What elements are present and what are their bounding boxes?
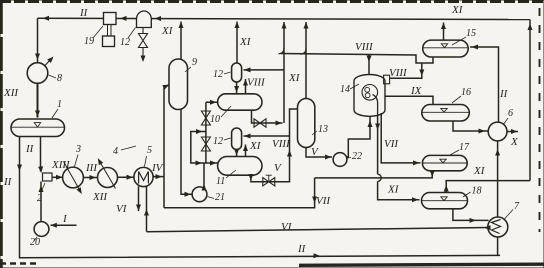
svg-text:20: 20 — [30, 237, 40, 248]
pump 22 — [333, 153, 347, 167]
svg-text:XI: XI — [451, 4, 464, 16]
wire 9 bottoms to pump 21 — [181, 110, 192, 195]
svg-text:12: 12 — [213, 69, 223, 80]
arrow into 22 — [325, 155, 332, 160]
filter 19 lower box — [103, 36, 115, 47]
wire riser to 9 — [164, 85, 169, 208]
arrow down II left — [17, 165, 22, 172]
page edge artifact bottom left — [0, 262, 40, 264]
arrow up riser A — [282, 22, 287, 29]
arrow into doser 2 — [38, 166, 43, 173]
arrow into 15 — [472, 45, 479, 50]
arrow VI down — [136, 205, 141, 212]
arrow into 12 dome — [155, 16, 162, 21]
wire VIII drop to reactor 14 top — [368, 55, 370, 76]
page edge artifact top — [0, 0, 544, 3]
arrow into 9 — [162, 85, 169, 90]
wire 10 bottoms — [252, 110, 283, 123]
svg-text:VIII: VIII — [389, 67, 408, 79]
svg-text:XI: XI — [161, 25, 174, 37]
drum 17 level line — [423, 162, 467, 164]
exchanger 7 — [488, 217, 508, 237]
wire 21 discharge — [203, 163, 205, 188]
arrow up into 2 — [39, 186, 44, 193]
arrow down from 14 — [375, 124, 380, 131]
svg-text:II: II — [3, 176, 13, 188]
arrow VII down — [312, 197, 317, 204]
wire 12l bottoms into 11 — [236, 150, 238, 157]
wire bypass loop — [191, 132, 206, 164]
tank 1 level mark — [34, 123, 40, 127]
valve under dome 12 — [142, 27, 144, 34]
svg-text:8: 8 — [57, 73, 62, 84]
svg-text:XI: XI — [239, 36, 252, 48]
svg-text:9: 9 — [192, 57, 197, 68]
drum 11 — [218, 157, 262, 176]
svg-text:II: II — [499, 88, 509, 100]
arrow into 19 — [120, 16, 127, 21]
vent arrow on 8 — [45, 58, 53, 67]
heater 5 — [134, 167, 153, 186]
svg-text:XI: XI — [288, 72, 301, 84]
column 13 — [298, 99, 315, 148]
valve V with stem — [263, 178, 275, 186]
wire VI out of 5 — [138, 186, 140, 211]
page edge artifact left — [0, 0, 3, 268]
arrow into 12l — [244, 134, 251, 139]
reactor 14 inner detail — [365, 87, 370, 92]
mixer 4 — [98, 168, 118, 188]
exchanger 7 zigzag — [492, 220, 501, 234]
pump 21 — [192, 187, 207, 202]
wire riser A x284 — [283, 22, 285, 123]
wire II left downcomer — [20, 137, 501, 258]
mixer 3 — [63, 167, 84, 188]
wire feed to 12l — [244, 135, 290, 137]
svg-text:4: 4 — [113, 146, 118, 157]
arrow bypass lower — [196, 161, 203, 166]
arrow into 17 — [413, 160, 420, 165]
svg-text:VII: VII — [384, 138, 399, 150]
drum 18 level line — [422, 200, 467, 202]
wire XI vapor from 11 — [245, 145, 247, 157]
svg-text:19: 19 — [84, 36, 94, 47]
wire into 11 — [206, 162, 218, 164]
reactor 14 side tag — [384, 75, 390, 84]
wire VIII vapor from 10 — [245, 79, 247, 94]
filter 19 stem — [107, 25, 109, 37]
wire 14 to 17 (VII) — [381, 113, 420, 163]
wire header to separator 8 — [37, 18, 39, 63]
column 9 — [169, 59, 188, 110]
svg-text:5: 5 — [147, 145, 152, 156]
mixer 3 shaft arrow — [64, 162, 82, 193]
wire 7 bottom to II line — [497, 237, 499, 255]
wire tank 1 to doser 2 — [40, 137, 42, 172]
arrow IV — [156, 174, 163, 179]
arrow up riser 9 — [179, 22, 184, 29]
page edge artifact right — [539, 8, 541, 232]
arrow into 11 — [210, 161, 217, 166]
svg-text:12: 12 — [213, 136, 223, 147]
wire riser from sep 12u — [236, 22, 238, 64]
wire IX line — [385, 96, 433, 104]
wire 12u bottoms into 10 — [236, 82, 238, 94]
arrow VIII up — [243, 79, 248, 86]
separator 12l — [232, 128, 242, 150]
arrow right II bottom — [313, 253, 320, 258]
drum 15 — [423, 40, 469, 57]
wire stream I inlet — [51, 224, 77, 226]
svg-text:VI: VI — [116, 203, 128, 215]
arrow up 21 discharge — [202, 184, 207, 191]
compressor 6 — [488, 122, 507, 141]
arrow down into 8 — [35, 54, 40, 61]
wire 6riser to 7 top — [497, 181, 499, 217]
arrow into 18 — [412, 197, 419, 202]
wire riser from column 13 — [305, 22, 307, 99]
svg-text:II: II — [297, 243, 307, 255]
svg-text:XII: XII — [3, 87, 19, 99]
svg-text:III: III — [85, 162, 98, 174]
svg-text:22: 22 — [352, 151, 362, 162]
arrow down into 14 top — [367, 56, 372, 63]
svg-text:IV: IV — [151, 162, 164, 174]
separator 12u — [232, 63, 242, 82]
svg-text:16: 16 — [461, 87, 471, 98]
arrow into 10 — [210, 100, 217, 105]
wire 6 suction riser — [497, 141, 499, 181]
wire VIII branch to 14 side — [390, 63, 422, 78]
svg-text:3: 3 — [75, 144, 81, 155]
reactor 14 — [354, 75, 385, 117]
drum 18 level mark — [441, 197, 447, 201]
heater 5 M symbol — [139, 172, 149, 184]
wire feed to 12u — [244, 69, 285, 71]
svg-text:14: 14 — [340, 84, 350, 95]
drum 16 — [422, 105, 470, 122]
arrow 17 bottoms down — [430, 171, 435, 178]
doser 2 — [43, 173, 53, 181]
reactor 14 internal circle — [362, 85, 378, 101]
arrow into 7 — [470, 218, 477, 223]
arrow up 18 overhead — [444, 185, 449, 192]
wire riser from column 9 — [180, 22, 182, 60]
svg-text:10: 10 — [210, 114, 220, 125]
drum 17 level mark — [440, 159, 446, 163]
svg-text:1: 1 — [57, 99, 62, 110]
arrow I into 20 — [50, 223, 57, 228]
arrow III into 4 — [90, 175, 97, 180]
arrow into 21 — [185, 192, 192, 197]
svg-text:21: 21 — [215, 192, 225, 203]
wire 8 to tank 1 — [37, 83, 39, 117]
svg-text:XII: XII — [92, 191, 108, 203]
svg-text:II: II — [79, 7, 89, 19]
arrow up riser 12u — [235, 22, 240, 29]
wire right edge riser — [529, 20, 531, 181]
arrow 11 bottoms down — [248, 174, 253, 181]
wire 4 to 5 — [118, 176, 135, 178]
arrow 10 bottoms right — [276, 121, 283, 126]
wire feed into 10 — [206, 101, 218, 103]
svg-text:VI: VI — [281, 221, 293, 233]
separator 8 — [27, 63, 48, 84]
filter 19 — [104, 13, 117, 25]
arrow up vertical B — [287, 150, 292, 157]
svg-text:VII: VII — [316, 195, 331, 207]
wire VII drop — [164, 178, 315, 208]
wire 11 bottoms — [251, 109, 298, 182]
svg-text:XI: XI — [473, 165, 486, 177]
svg-text:X: X — [510, 136, 519, 148]
drum 16 level mark — [441, 108, 447, 112]
svg-text:18: 18 — [472, 186, 482, 197]
wire 13 bottoms to pump 22 — [306, 148, 332, 158]
separator 12 dome — [137, 11, 152, 28]
wire 17 bottoms — [315, 171, 433, 178]
svg-text:11: 11 — [216, 176, 225, 187]
wire 2 to mixer 3 — [52, 176, 63, 178]
drum 10 — [218, 94, 262, 110]
wire IV from 5 — [153, 176, 164, 178]
wire top header II-XI — [38, 18, 531, 19]
mixer 4 shaft arrow — [99, 160, 116, 189]
tank 1 level line — [12, 126, 65, 128]
arrow X — [511, 129, 518, 134]
pump 20 — [34, 222, 49, 237]
arrow into mixer 3 — [56, 175, 63, 180]
drum 18 — [422, 193, 468, 209]
arrow bypass upper — [196, 129, 203, 134]
arrow down into 11 — [234, 149, 239, 156]
valve V2 — [201, 137, 210, 151]
arrow up into 14 — [368, 121, 373, 128]
wire valve train — [205, 102, 207, 163]
arrow up riser 15 — [441, 23, 446, 30]
arrow up into 6 — [495, 149, 500, 156]
arrow VI leftward — [484, 225, 491, 230]
drum 15 level mark — [441, 44, 447, 48]
arrow into tank 1 — [35, 111, 40, 118]
arrow VI up into 5 — [144, 209, 149, 216]
svg-text:II: II — [25, 143, 35, 155]
wire feed 15 from 6 — [470, 47, 499, 122]
tank 1 — [11, 119, 65, 137]
arrow XI up from 11 — [243, 145, 248, 152]
svg-text:15: 15 — [466, 28, 476, 39]
svg-text:17: 17 — [459, 142, 470, 153]
arrow into 6 — [479, 129, 486, 134]
svg-text:XI: XI — [249, 140, 262, 152]
arrow up riser 13 — [304, 22, 309, 29]
arrow down VIII branch — [419, 70, 424, 77]
valve on 10 bottoms — [254, 119, 266, 127]
drum 16 level line — [422, 111, 469, 113]
svg-text:VIII: VIII — [355, 41, 374, 53]
wire 18 overhead — [446, 181, 530, 193]
svg-text:6: 6 — [508, 108, 513, 119]
page edge artifact bottom right — [299, 264, 544, 265]
wire 18 bottoms to 7 — [453, 209, 489, 221]
arrow up right edge — [528, 24, 533, 31]
svg-text:13: 13 — [318, 124, 328, 135]
svg-text:VIII: VIII — [247, 77, 266, 89]
wire riser from tank 15 — [443, 23, 445, 41]
svg-text:12: 12 — [120, 37, 130, 48]
wire pump 20 to doser 2 — [40, 182, 42, 222]
wire 3 to 4 — [84, 177, 98, 179]
valve V1 — [201, 111, 210, 125]
wire X outlet — [507, 131, 518, 133]
wire 16 to compressor 6 — [453, 121, 488, 131]
arrow into 5 — [127, 175, 134, 180]
wire 14 to 18 (XI) — [377, 116, 379, 174]
drum 17 — [422, 155, 467, 170]
wire VI line — [147, 228, 490, 232]
wire VIII header — [281, 54, 433, 64]
svg-text:VIII: VIII — [272, 138, 291, 150]
wire VI return to 5 — [146, 186, 148, 231]
arrow down into 10 — [234, 86, 239, 93]
arrow into 12u — [244, 67, 251, 72]
arrow on header at x45 — [43, 16, 50, 21]
svg-text:IX: IX — [410, 85, 423, 97]
svg-text:XI: XI — [387, 184, 400, 196]
wire 22 discharge to 14 — [347, 117, 370, 157]
drum 15 level line — [423, 47, 467, 49]
arrow drain down — [141, 56, 146, 63]
